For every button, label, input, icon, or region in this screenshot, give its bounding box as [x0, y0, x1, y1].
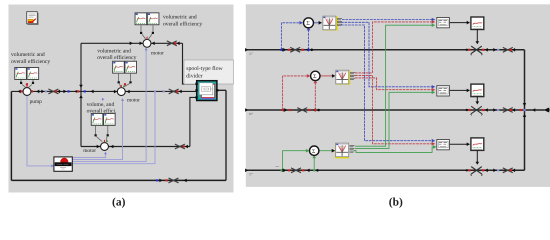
wire: right return vertical from divider outlet	[225, 90, 227, 180]
label box: spool-type flow divider	[184, 60, 234, 84]
node marks bottom return	[156, 178, 187, 183]
node: inlet row 1	[245, 48, 248, 52]
node marks bottom row	[97, 144, 188, 149]
signal wire: row3 circle to block	[319, 150, 334, 152]
svg-text:volumetric and: volumetric and	[97, 48, 131, 54]
engine prime mover	[54, 157, 72, 171]
signal wire: row2 riser under circle	[314, 82, 316, 110]
signal wire: row2 circle to block	[320, 75, 335, 77]
wire: vertical to divider port 1	[183, 43, 197, 84]
signal wire: row1 riser under circle	[308, 30, 310, 50]
scope row 3	[471, 138, 484, 151]
signal wire: pump speed violet	[27, 96, 53, 166]
tiny label above row3 valve	[276, 166, 280, 168]
wire: pump suction left vertical	[10, 91, 12, 180]
panel (a) background	[9, 5, 234, 193]
wire: line row 1	[246, 49, 525, 51]
node: inlet row 3	[245, 169, 248, 173]
node label row1	[249, 53, 253, 55]
signal wire: blue row1 to fn1	[342, 19, 432, 21]
lookup table pair (pump)	[15, 68, 27, 80]
signal wire: red row2 to fn3	[355, 75, 432, 143]
signal wire: engine to motor1	[73, 49, 147, 162]
wire: divider outlet stub	[217, 89, 226, 91]
svg-text:volume, and: volume, and	[87, 102, 115, 108]
port labels row 3	[350, 146, 355, 153]
wire: vertical to divider port 3	[190, 97, 197, 146]
injector block row 3	[336, 143, 350, 157]
scope row 1	[471, 17, 484, 30]
wire: scope1 to valve1	[476, 29, 478, 42]
node label row2	[249, 113, 253, 115]
svg-text:motor: motor	[127, 98, 140, 104]
motor 2	[117, 85, 125, 96]
svg-text:divider: divider	[186, 73, 202, 80]
panel (b) background	[246, 4, 550, 187]
signal wire: blue row1 to fn2	[341, 22, 432, 87]
stubs motor1 tables	[141, 25, 153, 39]
port labels row 1	[337, 19, 342, 26]
wire: scope2 to valve2	[476, 97, 478, 104]
svg-text:motor: motor	[151, 50, 164, 56]
wire: scope3 to valve3	[476, 150, 478, 163]
svg-text:pump: pump	[30, 99, 43, 105]
node label row3	[249, 174, 253, 176]
function block row 3	[437, 140, 450, 150]
wire: bottom row to motor3	[81, 146, 190, 148]
node: inlet row 2	[245, 108, 248, 112]
throttle valve row 2	[471, 106, 482, 115]
pump	[23, 85, 31, 96]
svg-text:spool-type flow: spool-type flow	[186, 65, 223, 72]
wire: fn1 to scope1	[450, 22, 470, 24]
svg-text:overall efficiency: overall efficiency	[11, 59, 50, 65]
wire: fn2 to scope2	[450, 89, 470, 91]
summator row 1	[304, 18, 314, 28]
svg-text:(b): (b)	[389, 197, 403, 209]
spool-type flow divider block	[197, 81, 217, 101]
wire: line row 3	[246, 169, 525, 171]
marks row 2	[281, 103, 535, 117]
injector block row 2	[336, 70, 350, 84]
signal wire: green row3 to fn2	[355, 92, 432, 148]
marks row 1	[280, 47, 515, 52]
wire: bottom return line	[11, 179, 226, 181]
wire: top row to motor1	[81, 42, 183, 44]
node: end of row 2	[544, 108, 550, 113]
svg-text:volumetric and: volumetric and	[163, 15, 197, 21]
summator row 2	[311, 71, 320, 80]
port labels row 2	[350, 73, 355, 80]
injector block row 1	[323, 16, 337, 30]
signal wire: engine to motor3	[73, 153, 106, 158]
signal wire: red row2 to fn2	[355, 78, 432, 90]
motor 1	[143, 37, 151, 48]
stubs motor3 tables	[96, 126, 108, 142]
lookup table pair (motor1)	[135, 13, 147, 25]
stubs pump tables	[21, 80, 33, 88]
marks row 3	[280, 168, 515, 173]
violet arrow under motor3	[102, 98, 105, 101]
stubs motor2 tables	[119, 74, 131, 87]
signal wire: row1 circle to block	[314, 22, 322, 24]
throttle valve row 3	[471, 167, 482, 176]
data file icon	[27, 12, 38, 25]
signal wire: red row2 to fn1	[355, 22, 432, 73]
wire: line row 2	[246, 109, 545, 111]
throttle valve row 1	[471, 46, 482, 55]
signal wire: row3 riser left (green)	[283, 151, 308, 171]
lookup table pair (motor2)	[113, 61, 125, 73]
signal wire: row1 riser left (blue)	[281, 23, 301, 50]
summator row 3	[310, 146, 319, 155]
function block row 1	[437, 18, 450, 28]
svg-text:overall efficiency: overall efficiency	[97, 55, 136, 61]
wire: left common vertical x=81	[80, 43, 82, 146]
scope row 2	[471, 84, 484, 97]
svg-text:overall efficiency: overall efficiency	[163, 21, 202, 27]
svg-text:volumetric and: volumetric and	[11, 52, 45, 58]
signal wire: row2 riser left (red)	[283, 76, 309, 110]
signal wire: green row3 to fn1	[355, 25, 432, 146]
motor 3	[101, 140, 109, 151]
signal wire: blue row1 to fn3	[341, 25, 432, 141]
function block row 2	[437, 86, 450, 96]
wire: middle row pump to divider	[11, 90, 196, 92]
node marks top row	[130, 41, 180, 46]
svg-text:(a): (a)	[112, 197, 126, 209]
node marks middle row	[18, 85, 182, 98]
signal wire: engine to motor2	[73, 99, 123, 159]
signal wire: engine to line tap	[73, 92, 155, 164]
wire: right bus vertical	[524, 50, 526, 171]
lookup table pair (motor3)	[91, 113, 103, 125]
signal wire: row3 riser under circle	[313, 157, 315, 170]
svg-text:motor: motor	[83, 148, 96, 154]
wire: fn3 to scope3	[450, 143, 470, 145]
divider ports	[195, 83, 197, 85]
signal wire: green row3 to fn3	[354, 147, 433, 153]
svg-text:Σ: Σ	[306, 20, 310, 27]
